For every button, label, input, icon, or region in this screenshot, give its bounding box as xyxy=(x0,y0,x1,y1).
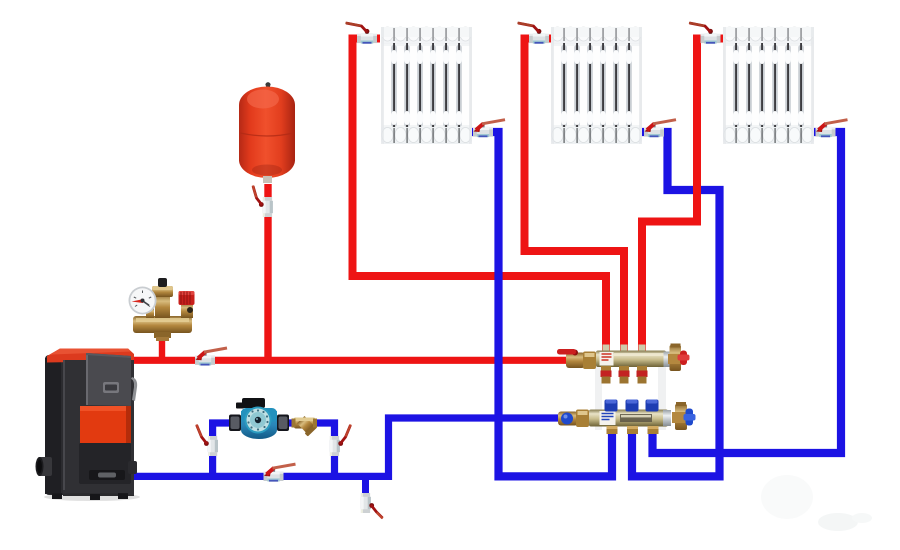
boiler firebox band xyxy=(80,406,131,443)
wire: main supply from boiler to supply manifold xyxy=(130,357,567,364)
valve on pump bypass right leg (vertical, lever up-right) xyxy=(329,425,351,457)
air vent center xyxy=(155,294,170,318)
boiler lower door xyxy=(79,443,131,484)
bottom brass ports xyxy=(607,426,618,434)
valve on main supply line (lever up-right) xyxy=(195,348,227,366)
watermark smudges xyxy=(761,475,813,519)
return manifold xyxy=(558,400,696,435)
wire: radiator R2 return jog and drop to return manifold port 2 xyxy=(632,132,720,476)
top blue knobs xyxy=(605,400,659,412)
body xyxy=(589,410,668,427)
wire: pump bypass loop xyxy=(213,423,335,476)
valve on pump bypass left leg (vertical, lever up-left) xyxy=(196,425,218,457)
supply manifold xyxy=(557,344,690,431)
right end group xyxy=(664,352,672,368)
boiler xyxy=(36,349,141,502)
manifold inlet valve (red lever) xyxy=(566,353,585,369)
wire: supply riser to radiator R1 xyxy=(353,39,607,353)
wire: security-group stem xyxy=(159,332,165,360)
Y-strainer xyxy=(292,415,318,437)
wire: radiator R1 return down to return manifold port 1 xyxy=(470,132,612,476)
radiator RAD3 xyxy=(723,27,814,144)
valve on radiator R3 return (lever up-right) xyxy=(816,120,848,138)
inlet fitting with blue knob xyxy=(558,412,578,426)
right end group xyxy=(663,410,671,426)
valve on radiator R3 supply (lever up-left) xyxy=(689,23,721,44)
bottom ports with red rings xyxy=(601,366,648,384)
safety valve (red cap) right xyxy=(181,303,193,318)
valve on radiator R1 supply (lever up-left) xyxy=(346,23,378,44)
wire: drain stub under main return xyxy=(362,478,369,497)
wire: supply riser to radiator R3 (passes over blue jog) xyxy=(642,39,724,353)
circulation pump xyxy=(229,398,289,439)
radiator RAD1 xyxy=(381,27,472,144)
wire: supply riser to radiator R2 xyxy=(525,39,625,353)
security group xyxy=(129,278,195,341)
manifold body xyxy=(596,351,666,368)
valve on tank drop (vertical, lever up-left) xyxy=(253,186,273,218)
wire: main return from return manifold to boiler xyxy=(133,418,560,476)
valve on radiator R2 supply (lever up-left) xyxy=(518,23,550,44)
valve on radiator R2 return (lever up-right) xyxy=(644,120,676,138)
valve on main return line (lever up-right) xyxy=(264,464,296,482)
drain valve under main return (vertical, lever down-right) xyxy=(360,493,383,519)
wire: radiator R3 return drop to return manifold port 3 xyxy=(653,132,842,453)
boiler side flue stub xyxy=(38,457,52,476)
expansion tank xyxy=(239,82,295,183)
valve on radiator R1 return (lever up-right) xyxy=(473,120,505,138)
pressure gauge xyxy=(146,308,154,318)
boiler return port xyxy=(128,461,137,474)
wire: expansion-tank drop xyxy=(264,184,271,360)
boiler feet xyxy=(52,493,62,499)
boiler upper door xyxy=(86,353,131,406)
boiler door handle xyxy=(131,377,137,401)
radiator RAD2 xyxy=(551,27,642,144)
brass base bar xyxy=(133,316,192,333)
